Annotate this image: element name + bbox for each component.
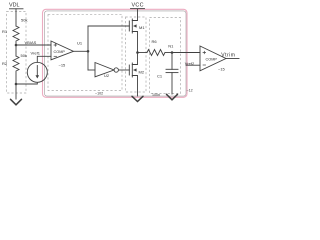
svg-text:VCC: VCC bbox=[132, 3, 144, 9]
wire to inverter input bbox=[88, 69, 95, 71]
wire node VBIAS to U1 + input bbox=[16, 44, 51, 46]
svg-text:U1: U1 bbox=[77, 41, 83, 46]
wire node N1 to U3 + input bbox=[172, 52, 200, 54]
wire node N1 down to C1 bbox=[171, 53, 173, 70]
op-amp U3 bbox=[200, 46, 226, 71]
capacitor C1 bottom plate bbox=[166, 72, 178, 74]
U3 + pin mark bbox=[203, 51, 206, 54]
ground under C1 bbox=[167, 94, 178, 100]
wire R6 to node N1 bbox=[165, 52, 172, 54]
dashed group box B (comparator + inverter) bbox=[48, 14, 122, 90]
dashed group box A (resistor divider) bbox=[7, 12, 27, 94]
svg-text:~12: ~12 bbox=[187, 88, 193, 92]
svg-text:R6: R6 bbox=[152, 39, 158, 44]
node VBIAS junction dot bbox=[15, 44, 18, 47]
node N1 junction dot bbox=[171, 51, 174, 54]
wire drain node to R6 bbox=[138, 52, 148, 54]
transistor M2 channel bbox=[131, 63, 133, 77]
svg-text:VBIAS: VBIAS bbox=[25, 40, 37, 45]
transistor M1 source stub bbox=[132, 32, 137, 53]
node M1/M2 drain junction dot bbox=[136, 51, 139, 54]
U1 + pin mark bbox=[54, 44, 57, 47]
dashed group box C (output MOSFETs) bbox=[126, 17, 147, 92]
power rail VCC bbox=[131, 8, 145, 10]
svg-text:M1: M1 bbox=[139, 25, 145, 30]
resistor R1 bbox=[13, 26, 19, 45]
power rail VDL bbox=[10, 8, 24, 10]
ground left bbox=[11, 99, 22, 105]
resistor R6 bbox=[147, 50, 165, 56]
current source arrow bbox=[36, 66, 38, 78]
wire riser gate node bbox=[87, 26, 89, 70]
node U1 output junction dot bbox=[87, 50, 90, 53]
ground under M2 bbox=[132, 96, 143, 101]
transistor M1 arrow bbox=[133, 24, 137, 27]
svg-text:Vref1: Vref1 bbox=[31, 51, 41, 56]
transistor M1 gate plate bbox=[128, 21, 130, 31]
wire bottom node to ground bbox=[15, 84, 17, 99]
wire Vref2 to U3 - input bbox=[186, 64, 200, 66]
wire R1 to R2 bbox=[15, 45, 17, 56]
wire C1 to ground bbox=[171, 73, 173, 94]
transistor M1 drain stub bbox=[132, 9, 137, 21]
transistor M2 drain stub bbox=[132, 53, 137, 65]
wire current source top to U1 - input bbox=[37, 56, 51, 62]
highlight box inner gray border bbox=[45, 11, 187, 96]
svg-text:Vref2: Vref2 bbox=[185, 61, 195, 66]
transistor M2 source stub bbox=[132, 76, 137, 97]
svg-text:50k: 50k bbox=[21, 53, 27, 58]
svg-text:50k: 50k bbox=[21, 18, 27, 23]
svg-text:U2: U2 bbox=[104, 73, 110, 78]
dashed group box D (filter C1) bbox=[150, 18, 181, 94]
svg-text:~15: ~15 bbox=[59, 63, 67, 68]
svg-text:N1: N1 bbox=[168, 44, 174, 49]
inverter bubble bbox=[114, 68, 118, 72]
node divider bottom junction dot bbox=[15, 83, 18, 86]
transistor M1 channel bbox=[131, 19, 133, 33]
wire current source bottom to node bbox=[16, 83, 37, 85]
svg-text:~102: ~102 bbox=[95, 92, 103, 96]
svg-text:R2: R2 bbox=[2, 61, 8, 66]
transistor M2 arrow bbox=[133, 68, 137, 71]
wire to M1 gate bbox=[88, 25, 129, 27]
svg-text:M2: M2 bbox=[139, 70, 145, 75]
svg-text:COMP: COMP bbox=[54, 50, 66, 54]
wire U3 output Vtrim bbox=[226, 58, 239, 60]
svg-text:~15: ~15 bbox=[218, 67, 226, 72]
svg-text:100n: 100n bbox=[152, 93, 160, 97]
svg-text:COMP: COMP bbox=[206, 58, 218, 62]
wire U1 output to node bbox=[74, 50, 88, 52]
op-amp U1 bbox=[51, 41, 74, 60]
highlight box (pink rounded selection) bbox=[43, 9, 188, 97]
current source I1 bbox=[27, 62, 47, 82]
U1 - pin mark bbox=[54, 55, 57, 57]
svg-text:Vtrim: Vtrim bbox=[221, 52, 235, 58]
inverter U2 bbox=[95, 63, 114, 77]
wire VDL to R1 bbox=[15, 9, 17, 26]
svg-text:VDL: VDL bbox=[9, 3, 20, 9]
capacitor C1 top plate bbox=[166, 68, 178, 70]
transistor M2 gate plate bbox=[128, 65, 130, 75]
wire inverter out to M2 gate bbox=[119, 69, 130, 71]
svg-text:C1: C1 bbox=[157, 74, 163, 79]
svg-text:R1: R1 bbox=[2, 29, 8, 34]
resistor R2 bbox=[13, 56, 19, 84]
U3 - pin mark bbox=[203, 64, 206, 66]
